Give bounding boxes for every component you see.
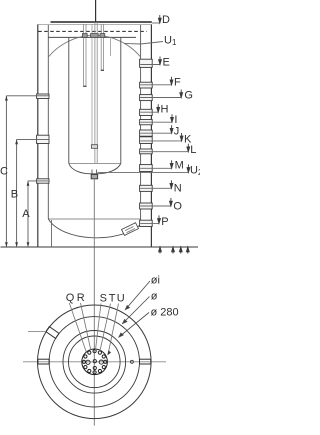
- tick N: [170, 180, 172, 188]
- svg-text:C: C: [0, 166, 8, 178]
- leader o: [123, 297, 150, 324]
- svg-text:U: U: [117, 293, 125, 305]
- leader O: [140, 205, 171, 207]
- leader o280: [119, 313, 149, 338]
- vessel circle: [63, 331, 126, 394]
- plan stub 9 o'clock: [38, 359, 49, 364]
- leader N: [140, 187, 171, 189]
- bolt holes ring: [82, 350, 106, 374]
- arrows A: [27, 181, 30, 186]
- pipe collars at flange plate: [82, 34, 87, 38]
- svg-text:ø: ø: [151, 291, 158, 303]
- stub K: [140, 137, 153, 144]
- leader oi: [125, 281, 150, 310]
- diameter labels: [151, 275, 179, 319]
- pipe C: [100, 24, 102, 71]
- tick M: [171, 160, 173, 168]
- leader J: [140, 132, 171, 134]
- svg-text:F: F: [174, 77, 181, 89]
- leader D: [152, 22, 160, 24]
- inner tank right wall: [120, 37, 122, 163]
- up arrow col3: [180, 247, 182, 254]
- tick O: [170, 198, 172, 206]
- leader E: [140, 64, 160, 66]
- tick E: [159, 57, 161, 65]
- svg-text:G: G: [184, 90, 193, 102]
- plan stub upper-left: [46, 327, 59, 339]
- tick I: [171, 114, 173, 122]
- leader K: [140, 140, 181, 142]
- stub M: [140, 165, 153, 172]
- jacket top edge: [38, 23, 152, 25]
- leader G: [140, 97, 181, 99]
- dim A line: [27, 181, 29, 247]
- leader U: [108, 304, 119, 355]
- leader P: [140, 222, 159, 224]
- stub L: [140, 149, 153, 154]
- arrow at U leader end: [107, 350, 111, 355]
- vessel left wall: [47, 25, 49, 219]
- leader L: [140, 151, 188, 153]
- tick L: [187, 144, 189, 152]
- stub F: [140, 82, 153, 88]
- stub N: [140, 185, 153, 191]
- vessel right wall: [140, 25, 142, 225]
- inner tank left wall: [68, 37, 70, 163]
- svg-text:Q: Q: [66, 292, 75, 304]
- vertical centerline: [93, 248, 95, 426]
- svg-text:P: P: [161, 216, 168, 228]
- left skirt inner line: [51, 220, 53, 247]
- stub E: [140, 59, 153, 67]
- right labels: [161, 14, 203, 228]
- pipe coupling: [91, 145, 97, 149]
- svg-text:J: J: [174, 125, 180, 137]
- plan top labels Q R S T U: [66, 292, 125, 305]
- svg-text:T: T: [109, 293, 116, 305]
- leader R: [81, 303, 91, 350]
- stub I: [140, 120, 153, 125]
- stub J: [140, 130, 153, 136]
- U2 down pipe: [93, 178, 95, 247]
- arrows B: [15, 139, 18, 144]
- svg-text:U1: U1: [164, 35, 177, 48]
- flange circle: [82, 349, 108, 375]
- stub P: [140, 220, 153, 226]
- leader Q: [69, 303, 86, 352]
- floor line: [1, 246, 199, 248]
- vessel bottom chord: [48, 218, 140, 220]
- leader I: [140, 121, 172, 123]
- diameter leader arrows: [119, 281, 150, 337]
- tick D: [159, 15, 161, 23]
- stub C': [37, 94, 49, 99]
- plan stub 3 o'clock: [140, 359, 151, 364]
- tick F: [171, 77, 173, 85]
- svg-text:ø 280: ø 280: [151, 307, 179, 319]
- arrows C: [5, 96, 8, 101]
- svg-text:S: S: [100, 293, 107, 305]
- leader T: [100, 304, 111, 352]
- jacket inner circle: [49, 317, 139, 407]
- inner tank circle: [69, 336, 121, 388]
- pipe A: [83, 24, 85, 87]
- vessel top dished head arc: [48, 35, 140, 57]
- svg-text:M: M: [175, 160, 184, 172]
- up arrow col2: [172, 247, 174, 254]
- svg-text:øi: øi: [151, 275, 160, 287]
- leader M: [140, 167, 171, 169]
- leader from upper-left stub: [28, 331, 45, 333]
- second center pipe: [91, 24, 93, 148]
- up arrow col1: [159, 247, 161, 254]
- tick G: [180, 90, 182, 98]
- svg-text:A: A: [22, 208, 30, 220]
- svg-text:B: B: [11, 189, 18, 201]
- leader U2: [98, 171, 189, 173]
- stub A': [37, 179, 49, 183]
- stub O: [140, 203, 153, 209]
- leader U1: [124, 42, 163, 45]
- tick K: [181, 133, 183, 141]
- vessel top head chord: [48, 36, 136, 38]
- leaders from QRSTU to flange: [69, 303, 118, 355]
- svg-text:E: E: [163, 57, 170, 69]
- tick H: [157, 104, 159, 112]
- svg-text:R: R: [77, 292, 85, 304]
- vessel bottom dished head arc: [48, 219, 140, 238]
- stub G: [140, 95, 153, 101]
- bottom reference up-arrows: [159, 247, 190, 254]
- lid top band: [51, 21, 152, 23]
- svg-text:L: L: [190, 144, 196, 156]
- stub B': [37, 135, 49, 143]
- tank outer jacket left wall: [37, 24, 39, 247]
- leader F: [140, 84, 171, 86]
- horizontal centerline: [23, 361, 166, 363]
- tick J: [171, 125, 173, 133]
- svg-text:D: D: [162, 14, 170, 26]
- leader H: [140, 111, 158, 113]
- tick P: [158, 215, 160, 223]
- dim C line: [5, 96, 7, 247]
- svg-text:I: I: [174, 114, 177, 126]
- svg-text:N: N: [174, 183, 182, 195]
- tick U2: [187, 164, 189, 172]
- outer insulation circle: [38, 305, 152, 419]
- up arrow col4: [187, 247, 189, 254]
- inner tank bowl chord: [69, 163, 121, 165]
- sensor dot right: [130, 360, 133, 363]
- tank outer jacket right wall: [150, 24, 152, 247]
- dimension ticks with down arrows: [157, 15, 190, 223]
- flange inner ports: [86, 360, 104, 370]
- riser pipe above lid: [95, 0, 97, 22]
- svg-text:O: O: [173, 201, 182, 213]
- inner tank bowl bottom: [69, 164, 121, 174]
- inner tank outlet fitting: [91, 170, 93, 175]
- svg-text:H: H: [161, 104, 169, 116]
- svg-text:U2: U2: [190, 165, 200, 178]
- dim B line: [16, 139, 18, 247]
- angled drain stub on bottom head: [122, 223, 139, 236]
- dashed max-level line: [38, 30, 147, 32]
- center pipe pair (to bowl): [94, 22, 96, 163]
- leader S: [95, 304, 101, 351]
- stub H: [140, 109, 153, 115]
